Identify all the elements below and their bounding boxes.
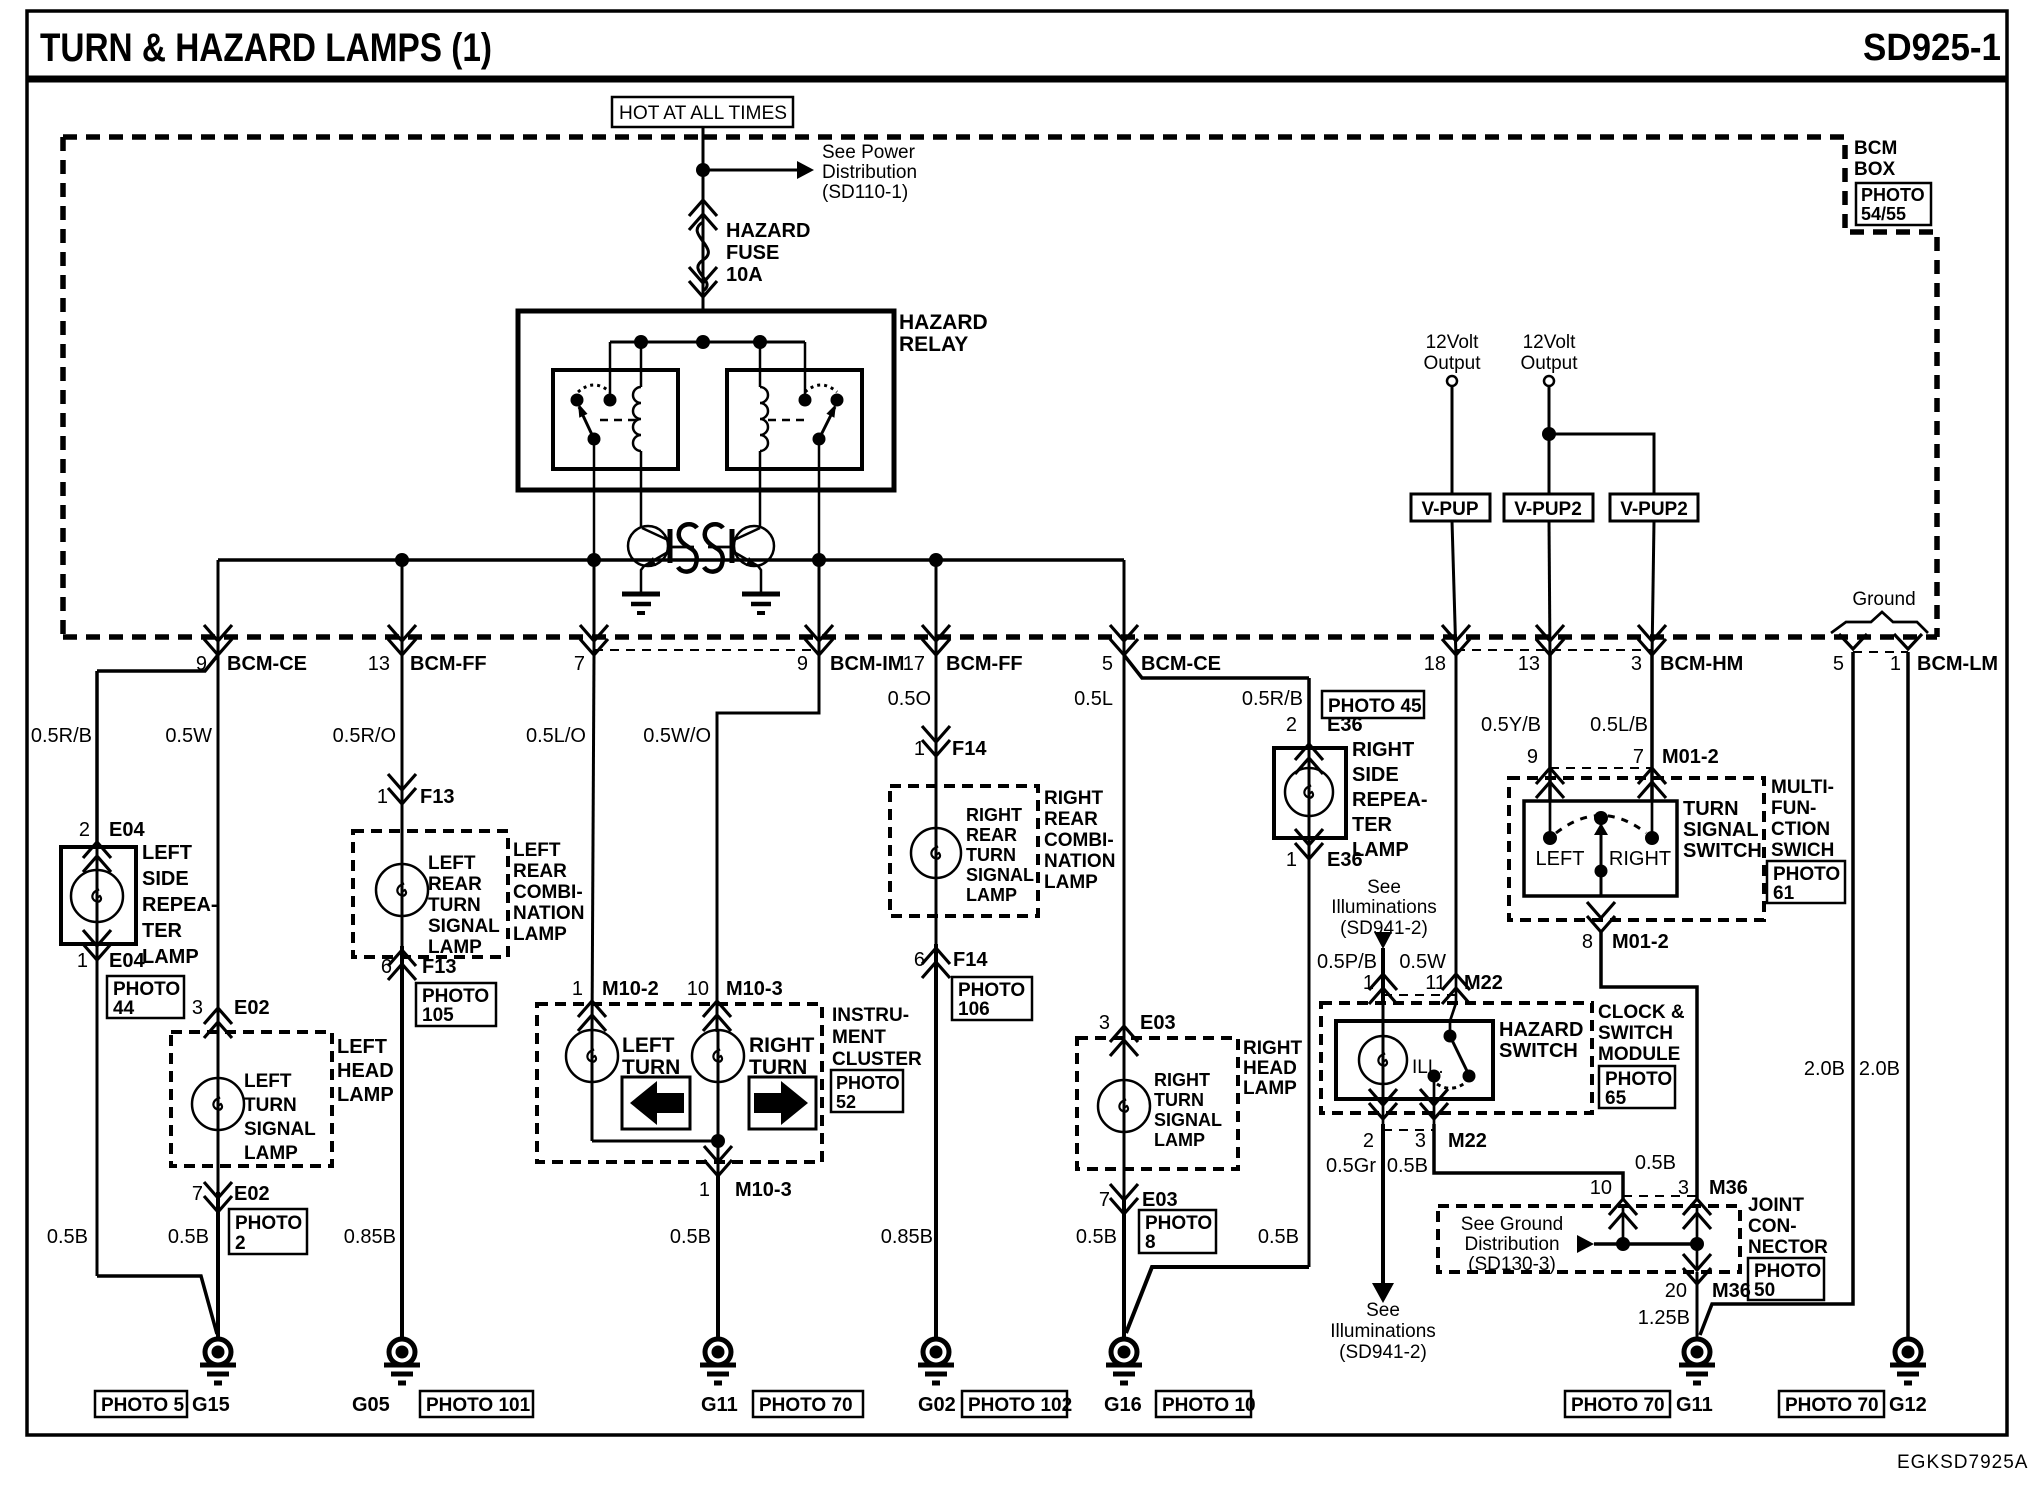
svg-text:M10-2: M10-2 [602,978,659,1000]
wire Q2 emitter to ground [758,566,761,592]
relay K1 linkage dashed [600,419,638,422]
connector arrow M36 pin 10 [1609,1199,1637,1229]
wire bus to K1 coil [640,342,643,387]
connector arrow M22 pin 2 [1369,1089,1397,1119]
relay K2 blade arrowhead [826,404,836,418]
terminal 12V 2 [1544,376,1554,386]
svg-text:PHOTO: PHOTO [1605,1069,1672,1090]
PHOTO 52 box [831,1070,903,1112]
svg-text:Output: Output [1423,353,1481,374]
svg-text:G11: G11 [701,1394,738,1416]
wire 0.5L/O down to cluster [592,655,594,1032]
connector arrow M01-2 pin 9 [1536,768,1564,798]
svg-text:TURN & HAZARD LAMPS (1): TURN & HAZARD LAMPS (1) [40,26,492,70]
svg-text:8: 8 [1145,1232,1156,1253]
svg-text:Output: Output [1520,353,1578,374]
relay K1 switch blade [579,407,594,439]
PHOTO 8 box [1139,1210,1216,1253]
wire M36 pin10 stub [1622,1206,1625,1244]
connector arrow E03 pin 3 [1110,1026,1138,1056]
svg-text:E02: E02 [234,1183,270,1205]
svg-text:0.5W/O: 0.5W/O [643,725,711,747]
wire joining lamps [592,1140,718,1143]
svg-text:TURN: TURN [966,845,1016,865]
svg-text:(SD941-2): (SD941-2) [1340,918,1428,939]
ground G16 [1106,1339,1142,1383]
svg-text:RIGHT: RIGHT [1044,788,1104,809]
ground G11 right [1679,1339,1715,1383]
ground G05 [384,1339,420,1383]
svg-text:FUN-: FUN- [1771,798,1816,819]
wire branch from BCM-CE 9 to left repeater [97,655,218,671]
svg-text:PHOTO 70: PHOTO 70 [759,1395,853,1416]
connector arrow E04 pin 1 [83,930,111,960]
svg-text:SIGNAL: SIGNAL [1683,819,1759,841]
svg-text:PHOTO: PHOTO [958,980,1025,1001]
wire through left turn signal lamp [217,1038,220,1192]
svg-text:RIGHT: RIGHT [1609,848,1671,870]
PHOTO 54/55 box [1856,183,1931,225]
svg-text:V-PUP2: V-PUP2 [1620,499,1688,520]
svg-text:PHOTO 101: PHOTO 101 [426,1395,531,1416]
PHOTO 50 box [1748,1258,1824,1300]
connector arrow M22 pin 1 [1369,974,1397,1004]
svg-text:M36: M36 [1709,1177,1748,1199]
connector arrow 7 [580,625,608,655]
wire 7 BCM-IM down [593,560,596,658]
svg-text:BCM: BCM [1854,138,1897,159]
connector arrow F14 pin 1 [922,726,950,756]
svg-text:LEFT: LEFT [244,1071,292,1092]
svg-text:F13: F13 [420,786,454,808]
lamp right side repeater [1285,768,1333,816]
svg-text:LAMP: LAMP [428,937,482,958]
lamp left side repeater [71,870,123,922]
svg-text:1: 1 [77,950,88,972]
lamp right turn indicator [692,1030,744,1082]
connector arrow BCM-FF 13 [388,625,416,655]
PHOTO 45 box [1322,691,1424,718]
wire into ILL lamp [1382,1003,1385,1099]
turn signal switch wiper arc dashed [1556,816,1646,834]
hazard relay outer box [518,311,894,490]
svg-text:LAMP: LAMP [1243,1078,1297,1099]
svg-text:BCM-CE: BCM-CE [1141,653,1221,675]
connector arrow E36 pin 1 [1295,829,1323,859]
wire Q1 emitter to ground [641,566,644,592]
wire contact to M22 pin 3 [1433,1082,1436,1124]
wire 3 down to M01-2 pin 7 [1650,655,1654,802]
svg-text:5: 5 [1833,653,1844,675]
thin dashed pair line M22 top [1383,994,1456,996]
svg-text:F14: F14 [952,738,987,760]
PHOTO 70 box G12 [1779,1391,1884,1417]
see illuminations exit arrow [1372,1283,1394,1303]
wire 0.5L down to E03 [1123,655,1126,1058]
see illuminations feed arrow [1374,932,1392,949]
svg-text:0.5B: 0.5B [1387,1155,1428,1177]
wire BCM-IM 9 down [818,560,821,658]
svg-text:PHOTO 70: PHOTO 70 [1571,1395,1665,1416]
connector arrow F13 pin 6 [388,950,416,980]
svg-text:TURN: TURN [1683,798,1739,820]
wire E02 pin7 to ground G15 [216,1192,220,1339]
svg-text:E04: E04 [109,819,145,841]
svg-text:BCM-CE: BCM-CE [227,653,307,675]
PHOTO 65 box [1599,1066,1675,1108]
svg-text:E36: E36 [1327,849,1363,871]
node bus F14 [929,553,943,567]
wire 13 down to M01-2 pin 9 [1548,655,1552,802]
svg-text:105: 105 [422,1005,454,1026]
connector arrow M10-3 pin 10 [703,1001,731,1031]
svg-text:See: See [1366,1300,1400,1321]
hazard switch top contact [1444,1030,1457,1043]
right side repeater lamp box [1274,748,1346,838]
lamp right rear turn signal [911,828,961,878]
svg-text:REAR: REAR [513,861,567,882]
relay K1 dotted throw arc [578,385,610,392]
svg-text:0.5L/O: 0.5L/O [526,725,586,747]
wire jog to ground G15 [97,1276,217,1334]
svg-text:BCM-LM: BCM-LM [1917,653,1998,675]
svg-text:11: 11 [1425,972,1446,994]
node power junction [696,163,710,177]
connector arrow M01-2 pin 8 [1587,902,1615,932]
svg-text:0.5W: 0.5W [165,725,212,747]
node cluster junction [711,1134,725,1148]
left head lamp dashed box [171,1032,332,1166]
svg-text:REAR: REAR [428,874,482,895]
svg-text:FUSE: FUSE [726,242,779,264]
svg-text:0.5B: 0.5B [670,1226,711,1248]
thin dashed pair line M01-2 [1550,767,1652,769]
node bus left relay output [587,553,601,567]
right head lamp dashed box [1077,1038,1238,1169]
connector arrow F14 pin 6 [922,948,950,978]
svg-text:3: 3 [1415,1130,1426,1152]
svg-text:SIGNAL: SIGNAL [1154,1110,1222,1130]
ground G02 [918,1339,954,1383]
PHOTO 70 box right [1565,1391,1670,1417]
instrument cluster dashed box [537,1004,822,1162]
wire bus left end down to BCM-CE 9 [217,560,220,658]
terminal 12V 1 [1447,376,1457,386]
relay feed bus [610,341,805,344]
svg-text:SIGNAL: SIGNAL [966,865,1034,885]
svg-text:REAR: REAR [1044,809,1098,830]
node bus dot left [634,335,648,349]
hazard switch lower contacts [1428,1070,1441,1083]
ground G12 [1890,1339,1926,1383]
main distribution bus wire [218,558,1124,562]
svg-text:1: 1 [1363,972,1374,994]
header underline [27,76,2007,83]
wire pin 7 into switch [1651,797,1654,838]
wire 0.5W/O jog down [717,655,819,1032]
V-PUP2 box 2 [1610,494,1698,521]
connector arrow BCM-CE 5 [1110,625,1138,655]
node 12V branch [1542,427,1556,441]
svg-text:SIDE: SIDE [142,868,189,890]
svg-text:10: 10 [687,978,709,1000]
svg-text:E36: E36 [1327,714,1363,736]
svg-text:CLOCK &: CLOCK & [1598,1002,1685,1023]
svg-text:HEAD: HEAD [337,1060,394,1082]
thin dashed pair line 18-3 [1456,649,1652,651]
svg-text:RIGHT: RIGHT [1243,1038,1303,1059]
svg-text:REPEA-: REPEA- [1352,789,1428,811]
PHOTO 106 box [952,977,1032,1020]
wire M01-2 pin 8 to M36 pin 3 [1601,932,1697,1199]
wire K2 common contact down [818,439,821,560]
lamp right turn signal [1098,1080,1150,1132]
connector arrow ground 1 BCM-LM [1894,634,1922,649]
svg-text:1: 1 [572,978,583,1000]
connector arrow M10-3 pin 1 [704,1146,732,1176]
lamp left turn signal [192,1078,244,1130]
svg-text:F13: F13 [422,956,456,978]
connector arrow 13 [1536,625,1564,655]
wiper arrowhead [1594,823,1608,835]
wire K1 coil to transistor Q1 [640,451,643,527]
svg-text:PHOTO 70: PHOTO 70 [1785,1395,1879,1416]
turn signal switch box [1524,801,1677,896]
relay K1 contact dots [571,394,584,407]
svg-text:2: 2 [1286,714,1297,736]
wire E04 pin1 down [96,944,99,1276]
svg-text:PHOTO: PHOTO [1861,185,1925,205]
svg-text:RIGHT: RIGHT [749,1034,815,1057]
connector arrow BCM-IM 9 [805,625,833,655]
svg-text:12Volt: 12Volt [1523,332,1577,353]
svg-text:0.5Gr: 0.5Gr [1326,1155,1376,1177]
wire V-PUP2 second down to 3 [1652,521,1654,658]
connector arrow E02 pin 7 [204,1182,232,1212]
wire to F14 [935,655,938,760]
svg-text:(SD941-2): (SD941-2) [1339,1342,1427,1363]
svg-text:NECTOR: NECTOR [1748,1237,1828,1258]
turn signal switch LEFT contact [1543,831,1557,845]
svg-text:54/55: 54/55 [1861,204,1906,224]
svg-text:0.85B: 0.85B [881,1226,933,1248]
svg-text:106: 106 [958,999,990,1020]
node bus right relay output [812,553,826,567]
svg-text:LAMP: LAMP [142,946,199,968]
wire bus right end down to BCM-CE 5 [1123,560,1126,658]
right arrow icon box [749,1077,816,1129]
svg-text:1: 1 [699,1179,710,1201]
connector arrow E04 pin 2 [83,842,111,872]
wire E36 bend to ground G16 [1126,1267,1309,1333]
svg-text:COMBI-: COMBI- [513,882,583,903]
svg-text:TER: TER [1352,814,1393,836]
svg-text:1: 1 [1286,849,1297,871]
svg-text:V-PUP2: V-PUP2 [1514,499,1582,520]
svg-text:18: 18 [1424,653,1446,675]
flasher element lead [672,546,694,549]
wire ground distribution bus [1594,1242,1697,1246]
relay K1 blade arrowhead [578,403,588,418]
wire F14 pin6 to ground G02 [934,944,938,1339]
svg-text:Distribution: Distribution [1464,1234,1559,1255]
svg-text:0.5B: 0.5B [1258,1226,1299,1248]
connector arrow M36 pin 20 [1683,1254,1711,1284]
connector arrow M10-2 pin 1 [578,1001,606,1031]
svg-text:SIGNAL: SIGNAL [428,916,500,937]
node wiper [1595,865,1608,878]
wire bus to K2 coil [759,342,762,387]
svg-text:LAMP: LAMP [966,885,1017,905]
svg-text:10: 10 [1590,1177,1612,1199]
wire BCM-FF 17 down [935,560,938,658]
svg-text:SD925-1: SD925-1 [1863,27,2001,69]
hazard switch dashed arc [1437,1083,1465,1088]
thin dashed pair line M22 bottom [1383,1129,1434,1131]
svg-text:10A: 10A [726,264,763,286]
svg-text:COMBI-: COMBI- [1044,830,1114,851]
wire bus to K1 fixed contact [609,342,612,396]
svg-text:CLUSTER: CLUSTER [832,1049,922,1070]
wire wiper down [1600,818,1603,896]
thin dashed pair line 7 / 9 BCM-IM [594,649,819,651]
left arrow icon [630,1081,684,1125]
node joint 3 [1690,1237,1704,1251]
svg-text:MULTI-: MULTI- [1771,777,1834,798]
wire 2.0B right to ground G12 [1906,652,1910,1339]
svg-text:E02: E02 [234,997,270,1019]
BCM BOX dashed outline [63,137,1937,637]
svg-text:PHOTO: PHOTO [235,1213,302,1234]
wire E03 pin7 to ground G16 [1122,1200,1126,1339]
PHOTO 61 box [1767,861,1845,903]
V-PUP box [1411,494,1490,521]
svg-text:SWITCH: SWITCH [1683,840,1762,862]
svg-text:RELAY: RELAY [899,333,968,356]
svg-text:NATION: NATION [513,903,584,924]
hazard switch blade [1450,1036,1467,1071]
svg-text:BCM-FF: BCM-FF [410,653,487,675]
turn signal switch wiper top contact [1594,811,1608,825]
svg-text:G02: G02 [918,1394,956,1416]
svg-text:0.5R/B: 0.5R/B [31,725,92,747]
svg-text:BCM-FF: BCM-FF [946,653,1023,675]
connector arrow M36 pin 3 [1683,1199,1711,1229]
svg-text:See Ground: See Ground [1461,1214,1563,1235]
wire BCM-FF 13 down [401,560,404,790]
connector arrow M22 pin 3 [1420,1089,1448,1119]
svg-text:M36: M36 [1712,1280,1751,1302]
wire 12V to V-PUP [1451,386,1454,494]
connector arrow F13 pin 1 [388,774,416,804]
svg-text:0.5L: 0.5L [1074,688,1113,710]
wire cluster to ground G11 [716,1176,720,1339]
arrow to power distribution [797,161,814,179]
svg-text:RIGHT: RIGHT [1154,1070,1210,1090]
svg-text:PHOTO: PHOTO [422,986,489,1007]
wire from HOT AT ALL TIMES to hazard relay [702,127,705,311]
svg-text:LAMP: LAMP [337,1084,394,1106]
node bus F13 [395,553,409,567]
relay K1 inner box [553,370,678,469]
svg-text:65: 65 [1605,1088,1627,1109]
relay K2 linkage dashed [768,419,808,422]
svg-text:MODULE: MODULE [1598,1044,1680,1065]
svg-text:G16: G16 [1104,1394,1142,1416]
node bus dot right [753,335,767,349]
svg-text:PHOTO: PHOTO [113,979,180,1000]
wire M22 pin 2 to illuminations [1381,1124,1385,1284]
wire F13 pin6 to ground G05 [400,946,404,1339]
multi-function switch dashed box [1509,778,1764,920]
svg-text:0.5B: 0.5B [168,1226,209,1248]
PHOTO 70 box cluster [753,1391,863,1417]
wire left turn lamp [591,1030,594,1141]
svg-text:M22: M22 [1448,1130,1487,1152]
svg-text:6: 6 [914,949,925,971]
transistor Q2 [732,526,774,567]
fuse element [697,222,708,291]
connector arrow 18 [1442,625,1470,655]
connector arrow BCM-FF 17 [922,625,950,655]
PHOTO 10 box [1156,1391,1251,1417]
svg-text:SWICH: SWICH [1771,840,1834,861]
svg-text:Illuminations: Illuminations [1331,897,1437,918]
svg-text:0.5B: 0.5B [1076,1226,1117,1248]
svg-text:Distribution: Distribution [822,162,917,183]
right arrow icon [754,1081,808,1125]
relay K2 contact dots [799,394,812,407]
svg-text:44: 44 [113,998,135,1019]
ground G15 [200,1339,236,1383]
svg-text:Ground: Ground [1852,589,1915,610]
ground distribution arrow [1577,1235,1594,1253]
svg-text:0.5B: 0.5B [47,1226,88,1248]
svg-text:0.85B: 0.85B [344,1226,396,1248]
svg-text:2: 2 [235,1233,246,1254]
svg-text:SWITCH: SWITCH [1598,1023,1673,1044]
relay K2 dotted throw arc [805,385,837,392]
svg-text:3: 3 [1099,1012,1110,1034]
wire ILL to M22 pin 2 [1382,1084,1385,1124]
wire M36 pin 20 to ground G11 [1696,1272,1699,1339]
wire pin 11 to switch contact [1450,976,1456,1036]
svg-text:2.0B: 2.0B [1804,1058,1845,1080]
clock and switch module dashed box [1321,1003,1592,1113]
svg-text:PHOTO 10: PHOTO 10 [1162,1395,1256,1416]
relay K2 switch blade [819,407,835,439]
wire V-PUP down to 18 [1452,521,1456,658]
svg-text:5: 5 [1102,653,1113,675]
node bus dot center [696,335,710,349]
wire K1 common contact down [593,439,596,560]
wire 18 down to M22 pin 11 [1455,655,1458,976]
left side repeater lamp box [61,847,136,944]
svg-text:LEFT: LEFT [1536,848,1585,870]
wire branch to V-PUP2 second [1549,434,1654,494]
svg-text:1.25B: 1.25B [1638,1307,1690,1329]
PHOTO 2 box [229,1209,307,1254]
connector arrow E03 pin 7 [1110,1184,1138,1214]
wire through left side repeater lamp [96,847,99,944]
svg-text:V-PUP: V-PUP [1421,499,1478,520]
ground Q2 [742,594,780,613]
svg-text:TURN: TURN [1154,1090,1204,1110]
svg-text:0.5W: 0.5W [1399,951,1446,973]
svg-text:REPEA-: REPEA- [142,894,218,916]
wire bus to K2 fixed contact [804,342,807,396]
lamp left turn indicator [566,1030,618,1082]
